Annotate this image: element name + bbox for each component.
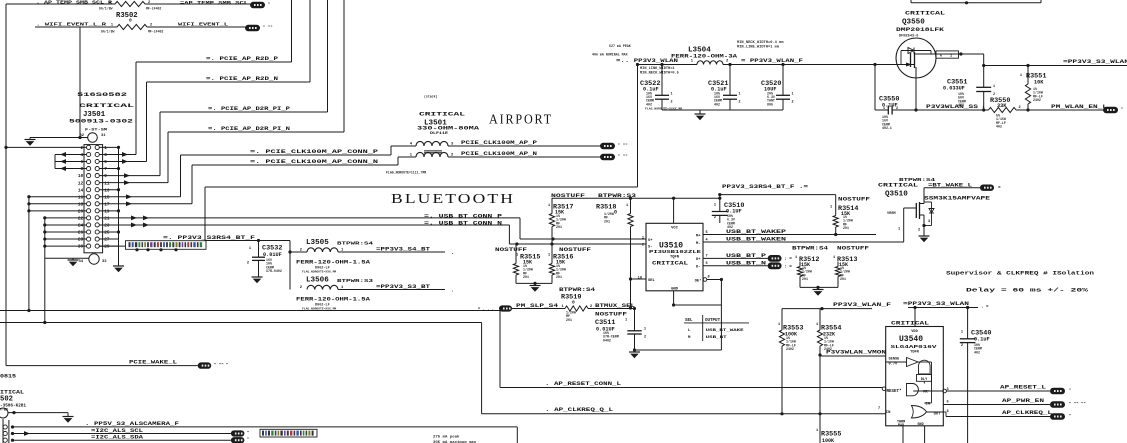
svg-text:CRITICAL: CRITICAL [891, 320, 929, 326]
svg-text:2: 2 [247, 262, 249, 266]
svg-text:PP3V3_S3RS4_BT_F .=: PP3V3_S3RS4_BT_F .= [722, 184, 808, 190]
svg-text:8: 8 [708, 276, 710, 280]
svg-text:MF-LF402: MF-LF402 [148, 29, 163, 33]
svg-text:=I2C_ALS_SCL: =I2C_ALS_SCL [91, 428, 143, 434]
label PCIE_CLK100M_AP_P [461, 140, 537, 146]
wire Q3550 drain out [933, 52, 984, 65]
svg-text:AP_RESET_L: AP_RESET_L [1000, 384, 1046, 390]
svg-text:" "" "": " "" "" [1069, 402, 1086, 407]
label BTPWR:S4 R3519 [559, 287, 595, 293]
label AP_TEMP_SMB_SCL_R [36, 0, 112, 6]
offpage PCIE_CLK100M_AP_N [600, 154, 628, 160]
ground right rail [113, 266, 124, 272]
svg-text:1: 1 [883, 107, 885, 111]
svg-text:=PP3V3_S3_BT: =PP3V3_S3_BT [376, 284, 430, 290]
wire AP_PWR_EN [943, 404, 1050, 406]
ground C3532 [252, 277, 263, 283]
svg-text:F-ST-SM: F-ST-SM [85, 129, 108, 133]
label pins 32 31 34 33 [78, 134, 107, 264]
resistor R3517 [548, 198, 573, 239]
svg-text:": " [247, 437, 249, 442]
ferrite L3504 [691, 60, 729, 65]
svg-text:20: 20 [78, 209, 84, 214]
label BTPWR:S4 R3512 [792, 246, 828, 252]
label BTPWR:S4 Q3510 [899, 177, 935, 183]
offpage I2C_ALS_SCL [231, 430, 250, 436]
label FERR-120-OHM-3A [671, 54, 737, 60]
label WIFI_EVENT_L_R [36, 21, 106, 27]
label PP3V3_WLAN [616, 58, 678, 64]
svg-text:FERR-120-OHM-1.5A: FERR-120-OHM-1.5A [296, 297, 370, 303]
svg-text:": " [1069, 414, 1071, 419]
svg-text:. =: . = [981, 306, 989, 310]
svg-text:2: 2 [150, 23, 152, 27]
wire PP3V3_S3_WLAN rail [982, 64, 1127, 67]
wire U3510 GND stub [672, 291, 721, 307]
svg-text:1: 1 [795, 256, 797, 260]
label USB_BT_N [726, 260, 766, 266]
svg-text:0: 0 [572, 300, 575, 306]
label CRITICAL U3540 [891, 320, 929, 326]
svg-text:= PP3V3_WLAN_F: = PP3V3_WLAN_F [741, 58, 803, 64]
label PP3V3_S3RS4_BT_F right [722, 184, 808, 190]
svg-text:SENSE: SENSE [889, 358, 901, 362]
ic U3510 body [646, 223, 703, 290]
svg-text:. AP_TEMP_SMB_SCL_R: . AP_TEMP_SMB_SCL_R [36, 0, 112, 6]
label 0815 [0, 374, 16, 380]
wire WIFI_EVENT_L_R [35, 26, 245, 28]
svg-text:PI3USB102ZLE: PI3USB102ZLE [649, 249, 701, 255]
ground R3512 R3513 [813, 290, 824, 296]
wire PP3V3_S3RS4_BT_F rail [552, 193, 836, 200]
svg-text:NOSTUFF: NOSTUFF [595, 312, 627, 318]
wire PP3V3_WLAN [636, 63, 697, 66]
svg-text:=I2C_ALS_SDA: =I2C_ALS_SDA [91, 435, 143, 441]
svg-text:8: 8 [81, 167, 84, 172]
svg-text:27: 27 [104, 238, 110, 243]
svg-text:Delay = 60 ms +/- 20%: Delay = 60 ms +/- 20% [966, 287, 1089, 294]
svg-text:17: 17 [104, 202, 110, 207]
wire pin5 to R2D_N [119, 159, 147, 164]
label PP3V3_S3_WLAN bottom [903, 301, 989, 310]
label PCIE_CLK100M_AP_CONN_P [250, 149, 378, 155]
label CRITICAL J3501 [79, 102, 135, 109]
svg-text:1: 1 [111, 23, 113, 27]
svg-text:PM_WLAN_EN_L: PM_WLAN_EN_L [1051, 104, 1107, 110]
label P3V3WLAN_SS [926, 104, 978, 110]
resistor R3554 [816, 309, 841, 443]
capacitor C3551 [943, 66, 995, 112]
resistor R3518 [596, 198, 633, 309]
connector J3501 body [84, 145, 103, 253]
svg-text:8: 8 [947, 410, 949, 414]
svg-text:ITICAL: ITICAL [0, 388, 25, 395]
svg-text:" "": " "" [618, 143, 628, 148]
svg-text:201: 201 [802, 277, 808, 281]
svg-text:1: 1 [642, 237, 644, 241]
svg-text:0402: 0402 [603, 338, 611, 342]
wire airport feed horizontal [205, 186, 638, 188]
svg-text:CRITICAL: CRITICAL [79, 102, 135, 109]
svg-text:=. USB_BT_CONN_P: =. USB_BT_CONN_P [424, 213, 502, 219]
svg-text:: =: : = [784, 264, 792, 269]
svg-text:BTPWR:S3: BTPWR:S3 [598, 193, 636, 199]
svg-text:": " [247, 431, 249, 436]
label R3519 [561, 294, 581, 306]
resistor R3555 [816, 429, 841, 443]
svg-text:=. PCIE_AP_R2D_P: =. PCIE_AP_R2D_P [206, 56, 278, 62]
svg-text:BLUETOOTH: BLUETOOTH [391, 191, 515, 206]
wire PCIE_AP_R2D_N [147, 0, 311, 162]
label PP3V3_S4_BT [376, 247, 454, 257]
resistor R3502b [101, 23, 163, 33]
svg-text:7: 7 [878, 407, 880, 411]
svg-text:" "": " "" [618, 154, 628, 159]
svg-text:502: 502 [0, 396, 13, 404]
wire PP3V3_WLAN_F to Q3550 [723, 64, 897, 66]
svg-text:R3502: R3502 [116, 12, 138, 20]
svg-text:201: 201 [523, 275, 529, 279]
svg-text:1: 1 [625, 319, 627, 323]
choke L3501 bottom winding [410, 152, 454, 157]
svg-text:1: 1 [1020, 74, 1022, 78]
wire USB P jog [520, 218, 646, 246]
label NOSTUFF R3515 [495, 247, 527, 253]
svg-text:NOSTUFF: NOSTUFF [551, 193, 585, 199]
svg-text:275 mA peak: 275 mA peak [433, 434, 460, 439]
label PCIE_AP_D2R_PI_P [208, 106, 290, 112]
svg-text:BTMUX_SEL: BTMUX_SEL [595, 303, 635, 309]
offpage AP_RESET_L [1050, 388, 1071, 395]
svg-text:.: . [451, 250, 454, 256]
svg-text:P3V3WLAN_VMON: P3V3WLAN_VMON [826, 350, 886, 356]
offpage USB_BT_N [768, 262, 793, 269]
offpage BT_WAKE_L [980, 185, 1001, 192]
svg-text:CRITICAL: CRITICAL [905, 10, 946, 17]
label USB_BT_WAKEN [726, 237, 786, 243]
offpage I2C_ALS_SDA [231, 437, 250, 443]
svg-text:OUTPUT: OUTPUT [705, 319, 721, 323]
svg-text:D-: D- [696, 266, 701, 270]
svg-text:22: 22 [78, 217, 84, 222]
label USB_BT_CONN_P [424, 213, 502, 219]
title AIRPORT [489, 112, 553, 127]
svg-text:330-OHM-80MA: 330-OHM-80MA [417, 126, 479, 132]
svg-text:1: 1 [993, 85, 995, 89]
label WIFI_EVENT_L [178, 22, 228, 28]
label PP3V3_S3RS4_BT_F left [163, 235, 255, 241]
svg-text:1: 1 [671, 93, 673, 97]
svg-text:5%/1/8W: 5%/1/8W [99, 6, 112, 10]
svg-text:OE*: OE* [695, 279, 702, 284]
label NOSTUFF R3516 [559, 247, 591, 253]
resistor R3502a [99, 1, 161, 10]
svg-text:VRRM: VRRM [887, 212, 896, 216]
wire Q3510 source gnd [923, 226, 925, 237]
svg-text:201: 201 [556, 275, 562, 279]
wire J3502 mount to ground [8, 411, 68, 417]
svg-text:NOSTUFF: NOSTUFF [838, 197, 870, 203]
svg-text:2: 2 [739, 101, 741, 105]
svg-text:33K: 33K [997, 103, 1007, 109]
svg-text:2: 2 [896, 107, 898, 111]
wire AP_TEMP_SMB_SCL_R [6, 3, 250, 5]
resistor R3550 [982, 97, 1020, 129]
wire airport feed vertical left [204, 187, 206, 241]
svg-text:2: 2 [671, 101, 673, 105]
svg-text:1: 1 [109, 1, 111, 5]
wire BT_WAKE_L [924, 187, 980, 189]
svg-text:3: 3 [928, 220, 930, 224]
ic U3540 labels [878, 330, 949, 428]
svg-text:GND: GND [918, 423, 924, 427]
wire R3512 R3513 join [800, 286, 838, 290]
offpage AP_PWR_EN [1050, 401, 1086, 408]
svg-text:23: 23 [104, 224, 110, 229]
svg-text:BTPWR:S3: BTPWR:S3 [337, 278, 373, 284]
svg-text:1: 1 [626, 204, 628, 208]
offpage PM_WLAN_EN_L [1103, 107, 1123, 113]
svg-text:USB_BT_N: USB_BT_N [726, 260, 766, 266]
svg-text:MIN_LINE_WIDTH=1 mm: MIN_LINE_WIDTH=1 mm [737, 46, 780, 50]
svg-text:1: 1 [249, 247, 251, 251]
transistor Q3550 [896, 38, 936, 78]
wire PCIE_CLK100M_AP_N [398, 156, 600, 158]
label 330-OHM-80MA [417, 126, 479, 132]
wire bottom gnd run [633, 348, 722, 352]
label USB_BT_P [726, 253, 766, 259]
ic U3540 body [886, 327, 944, 426]
wire USB N jog [509, 225, 646, 246]
svg-text:Q3510: Q3510 [885, 191, 908, 199]
svg-text:M+: M+ [696, 235, 701, 239]
note J3502 small [0, 407, 8, 411]
svg-text:201: 201 [556, 225, 562, 229]
svg-text:34: 34 [78, 260, 83, 264]
wires pins 22-30 left [43, 216, 86, 247]
wire USB_BT_P [703, 257, 768, 259]
svg-text:FLAG_NOROUTE=XXX.MM: FLAG_NOROUTE=XXX.MM [302, 307, 336, 310]
svg-text:SEL: SEL [685, 319, 693, 323]
svg-text:2: 2 [1019, 106, 1021, 110]
svg-text:1: 1 [104, 146, 107, 151]
svg-text:USB_BT_P: USB_BT_P [726, 253, 766, 259]
svg-text:BTPWR:S4: BTPWR:S4 [792, 246, 828, 252]
wire pin3 to R2D_P [119, 152, 137, 157]
ic U3510 pin labels [638, 231, 710, 284]
svg-text:516S0582: 516S0582 [77, 92, 127, 98]
label USB_BT_CONN_N [424, 221, 502, 227]
note current top mid [592, 44, 631, 57]
svg-text:9: 9 [104, 174, 107, 179]
svg-text:TDFN: TDFN [910, 351, 919, 355]
ground U3510 [629, 352, 640, 358]
svg-text:Q3550: Q3550 [902, 19, 925, 27]
svg-text:2: 2 [918, 229, 920, 233]
label 516S0582 [77, 92, 127, 98]
svg-text:805: 805 [767, 102, 773, 106]
svg-text:=. PCIE_AP_R2D_N: =. PCIE_AP_R2D_N [206, 76, 278, 82]
label L3505 [306, 239, 373, 247]
label PM_WLAN_EN_L [1051, 104, 1107, 110]
wire U3540 thermal pads [903, 426, 925, 443]
wire OE down [720, 280, 722, 351]
svg-text:BTPWR:S4: BTPWR:S4 [337, 241, 373, 247]
wire gang vertical to AP_RESET line [27, 197, 30, 312]
svg-text:7: 7 [104, 167, 107, 172]
svg-text:1: 1 [830, 206, 832, 210]
svg-text:100K: 100K [822, 438, 834, 443]
svg-text:=. USB_BT_CONN_N: =. USB_BT_CONN_N [424, 221, 502, 227]
svg-text:S+: S+ [648, 239, 653, 243]
svg-text:1: 1 [548, 204, 550, 208]
svg-text:1: 1 [816, 429, 818, 433]
connector J3501 pin34-33 circle [89, 254, 99, 264]
label AP_PWR_EN [1002, 398, 1044, 404]
constraint note bar [126, 241, 207, 252]
svg-text:2: 2 [81, 146, 84, 151]
svg-text:=. PP3V3_S3RS4_BT_F: =. PP3V3_S3RS4_BT_F [163, 235, 255, 241]
svg-text:31: 31 [101, 134, 106, 138]
capacitor C3532 [247, 241, 283, 278]
svg-text:PP3V3_WLAN_F: PP3V3_WLAN_F [833, 302, 891, 308]
note FLAG_NOROUTE mid [645, 107, 682, 111]
ic U3540 and gate [907, 384, 947, 396]
svg-text:S-: S- [648, 246, 653, 250]
wire PCIE_CLK100M_AP_CONN_P [181, 146, 392, 197]
wire PM_WLAN_EN_L [1016, 108, 1103, 111]
connector J3501 pin32-31 circle [88, 133, 98, 143]
transistor Q3510 [887, 188, 934, 233]
label NOSTUFF R3514 [838, 197, 870, 203]
svg-text:10: 10 [78, 174, 84, 179]
label 500913-0302 [69, 119, 133, 125]
choke L3501 top winding [410, 141, 454, 146]
capacitor C3550 [875, 65, 916, 131]
svg-text:FLAG_NOROUTE=XXX.MM: FLAG_NOROUTE=XXX.MM [302, 271, 336, 274]
wire J3501 right rail [118, 147, 120, 266]
wire airport feed vertical right [637, 65, 639, 188]
svg-text:12: 12 [78, 181, 84, 186]
label AP_CLKREQ_Q_L [545, 407, 613, 413]
svg-text:FLAG_NOROUTE=XXXX.MM: FLAG_NOROUTE=XXXX.MM [645, 107, 682, 111]
svg-text:402: 402 [996, 125, 1002, 129]
label J3502 [0, 396, 13, 404]
ground filter caps [695, 110, 706, 120]
label F-ST-SM [85, 129, 108, 133]
label PCIE_CLK100M_AP_N [461, 151, 537, 157]
label BTPWR:S3 header [598, 193, 636, 199]
label DFN2543-6 [899, 35, 918, 39]
svg-text:AP_PWR_EN: AP_PWR_EN [1002, 398, 1044, 404]
svg-text:NOSTUFF: NOSTUFF [837, 246, 869, 252]
svg-text:0: 0 [129, 18, 132, 24]
svg-text:=. PCIE_AP_D2R_PI_P: =. PCIE_AP_D2R_PI_P [208, 106, 290, 112]
wire pin34 ground branch [45, 258, 89, 260]
svg-text:MIN_LINK_WIDTH=1: MIN_LINK_WIDTH=1 [640, 67, 675, 71]
title BLUETOOTH [391, 191, 515, 206]
wire PP3V3_S4_BT [338, 251, 445, 253]
wire PP3V3_S3_WLAN bottom [908, 306, 978, 309]
table SEL OUTPUT [684, 315, 749, 341]
wire Q3510 gate [904, 208, 917, 242]
svg-text:21: 21 [104, 217, 110, 222]
label P3V3WLAN_VMON [826, 350, 886, 356]
svg-text:0.7V: 0.7V [889, 363, 898, 367]
wire AP_CLKREQ_Q_L [0, 323, 886, 414]
svg-text:29: 29 [104, 245, 110, 250]
svg-text:1: 1 [739, 93, 741, 97]
svg-text:25: 25 [104, 231, 110, 236]
svg-text:IN: IN [886, 411, 891, 415]
label AP_RESET_CONN_L [545, 381, 621, 387]
note MIN_NECK top right [737, 41, 784, 50]
label BTMUX_SEL [595, 303, 635, 309]
svg-text:. PP5V_S3_ALSCAMERA_F: . PP5V_S3_ALSCAMERA_F [85, 421, 179, 427]
note Supervisor [946, 270, 1095, 277]
svg-text:406 mA NOMINAL MAX: 406 mA NOMINAL MAX [592, 53, 628, 57]
svg-text:U3540: U3540 [899, 335, 923, 344]
svg-text:SLG4AP016V: SLG4AP016V [891, 344, 937, 350]
wire pin15 to CONN_P [119, 194, 181, 199]
wire pin17 to CONN_N [119, 201, 193, 206]
label USB_BT_WAKEP [726, 229, 786, 235]
svg-text:402: 402 [974, 350, 980, 354]
svg-text:MIN_NECK_WIDTH=0.5: MIN_NECK_WIDTH=0.5 [640, 71, 679, 75]
svg-text:1: 1 [982, 106, 984, 110]
wire PCIE_AP_D2R_PI_P [160, 0, 328, 176]
svg-text:VCC: VCC [671, 227, 679, 231]
resistor R3515 [513, 244, 540, 283]
wire U3540 VCC stub [914, 308, 916, 327]
resistor R3514 [830, 195, 858, 235]
svg-text:6: 6 [940, 54, 942, 58]
svg-text:BTPWR:S4: BTPWR:S4 [559, 287, 595, 293]
svg-text:OUT: OUT [934, 413, 942, 417]
svg-text:CRITICAL: CRITICAL [419, 111, 466, 118]
svg-text:USB_BT_WAKE: USB_BT_WAKE [706, 329, 745, 333]
wire PP5V_S3_ALSCAMERA_F [13, 427, 518, 443]
label FERR L3505 [296, 260, 370, 274]
svg-text:DMP2018LFK: DMP2018LFK [896, 27, 945, 33]
note MIN_LINK_WIDTH [640, 67, 679, 75]
label PCIE_CLK100M_AP_CONN_N [250, 159, 378, 165]
connector J3502 edge [3, 419, 14, 443]
ic U3540 gate dome [919, 360, 931, 374]
svg-text:33: 33 [102, 260, 107, 264]
ic U3510 labels [649, 227, 701, 292]
svg-text:Supervisor & CLKFREQ # ISolati: Supervisor & CLKFREQ # ISolation [946, 270, 1095, 277]
svg-text:1: 1 [778, 323, 780, 327]
ground pin34 [68, 260, 79, 266]
svg-text:WIFI_EVENT_L: WIFI_EVENT_L [178, 22, 228, 28]
svg-text:2: 2 [714, 216, 716, 220]
svg-text:527 mA PEAK: 527 mA PEAK [609, 44, 631, 48]
wire AP_RESET_L [946, 390, 1050, 392]
svg-text:MIN_NECK_WIDTH=0.4 mm: MIN_NECK_WIDTH=0.4 mm [737, 41, 784, 45]
svg-text:": " [268, 2, 270, 7]
ic U3540 DLY box [917, 375, 932, 382]
note 275 mA peak [433, 434, 477, 443]
offpage AP_CLKREQ_L [1050, 413, 1071, 420]
svg-text:6: 6 [947, 401, 949, 405]
wire Q3550 gate down [914, 78, 917, 112]
offpage AP_TEMP_SMB_SCL [250, 2, 270, 8]
ic U3540 or gate [912, 406, 944, 419]
svg-text:PCIE_CLK100M_AP_P: PCIE_CLK100M_AP_P [461, 140, 537, 146]
svg-text:" "" ": " "" " [214, 363, 228, 368]
svg-text:NOSTUFF: NOSTUFF [559, 247, 591, 253]
